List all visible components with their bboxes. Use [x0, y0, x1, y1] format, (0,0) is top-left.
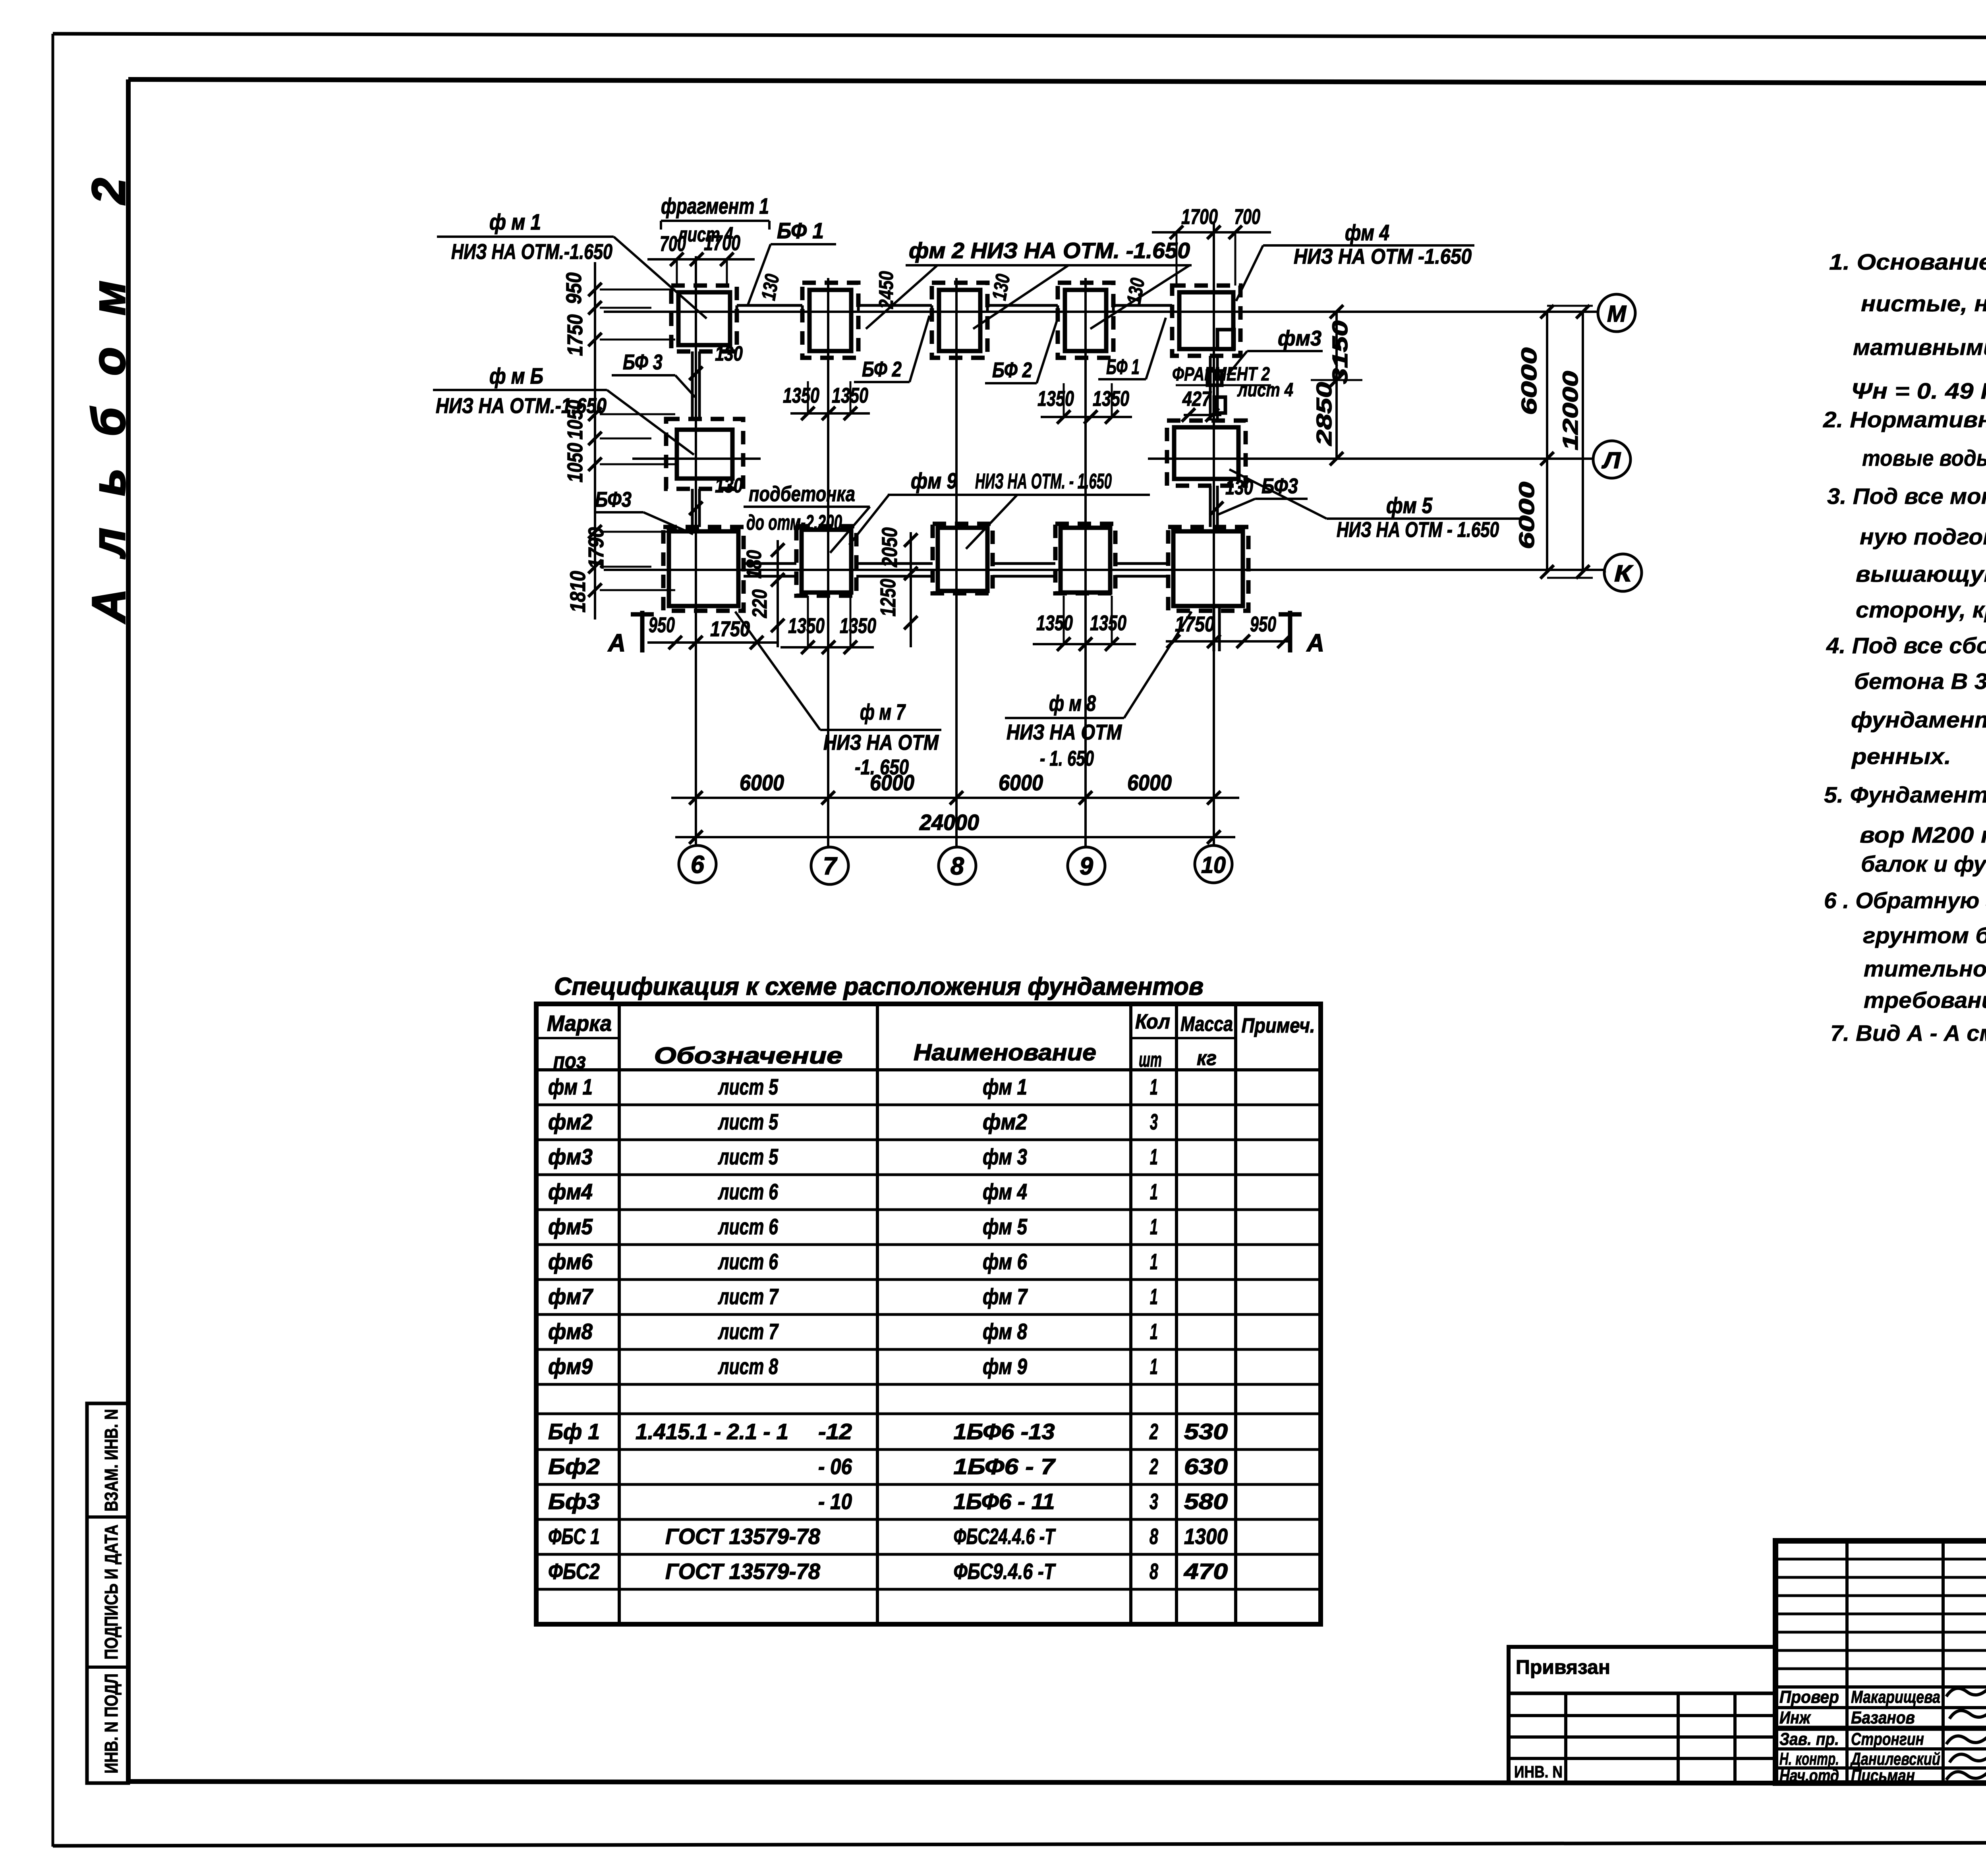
- margin label inv: [101, 1673, 122, 1774]
- svg-text:1250: 1250: [876, 579, 900, 617]
- svg-text:БФ3: БФ3: [595, 488, 632, 511]
- svg-text:Спецификация к схеме располо: Спецификация к схеме расположения фундам…: [554, 973, 1204, 1000]
- svg-text:лист 7: лист 7: [718, 1319, 779, 1344]
- album label: [83, 146, 135, 624]
- svg-text:1700: 1700: [1181, 205, 1218, 229]
- svg-text:Провер: Провер: [1779, 1687, 1839, 1707]
- svg-text:фм9: фм9: [548, 1354, 593, 1379]
- svg-text:130: 130: [988, 272, 1014, 302]
- svg-text:Нач.отд: Нач.отд: [1779, 1766, 1839, 1785]
- svg-text:до отм-2.200: до отм-2.200: [746, 511, 842, 535]
- column axis 7: [827, 278, 829, 847]
- svg-text:требованиями СНиП 3. 02. 01: требованиями СНиП 3. 02. 01 - 87.: [1864, 988, 1986, 1013]
- svg-text:А: А: [607, 629, 626, 657]
- foundation FM9 axis7 row K: [796, 526, 856, 596]
- title staff row Провер: [1779, 1687, 1940, 1707]
- svg-text:950: 950: [649, 613, 675, 637]
- label fragment2: [1172, 364, 1293, 401]
- label FM7: [735, 612, 941, 779]
- svg-text:-1. 650: -1. 650: [855, 755, 909, 779]
- svg-text:Наименование: Наименование: [914, 1040, 1096, 1065]
- note line 10: [1856, 597, 1986, 623]
- label BF3 first: [612, 350, 695, 397]
- foundation FM9 axis8 row K: [933, 524, 993, 593]
- dimension 180 220 vertical: [743, 540, 784, 647]
- svg-text:1: 1: [1150, 1179, 1158, 1204]
- note line 20: [1864, 956, 1986, 982]
- svg-text:9: 9: [1080, 853, 1093, 880]
- svg-text:Привязан: Привязан: [1516, 1656, 1610, 1678]
- title staff row Нач.отд: [1779, 1766, 1915, 1785]
- spec row Бф2: [548, 1454, 1228, 1479]
- row axis K: [604, 569, 1604, 571]
- label FM9 niz na otm: [849, 468, 1150, 549]
- svg-text:1: 1: [1150, 1074, 1158, 1099]
- svg-text:470: 470: [1184, 1559, 1228, 1584]
- svg-text:А: А: [1306, 629, 1324, 657]
- gap label 130 near FM5: [1210, 476, 1253, 515]
- svg-text:фундамента на 100мм в каж: фундамента на 100мм в каждую сторону, кр…: [1851, 707, 1986, 733]
- axis circle 8: [939, 847, 976, 884]
- svg-text:БФ 1: БФ 1: [1106, 355, 1140, 379]
- svg-text:Стронгин: Стронгин: [1851, 1729, 1924, 1749]
- svg-text:Ψн = 0. 49 РАД; ρ = 1.8 т: Ψн = 0. 49 РАД; ρ = 1.8 т/м³ ; кт = 1: [1851, 378, 1986, 404]
- svg-text:вор М200 толщиной 20 мм.: вор М200 толщиной 20 мм. Зазоры между то…: [1860, 822, 1986, 848]
- svg-text:180: 180: [743, 550, 766, 579]
- svg-text:фм 4: фм 4: [983, 1179, 1027, 1204]
- svg-text:7. Вид А - А смотри ли: 7. Вид А - А смотри лист 4.: [1830, 1021, 1986, 1046]
- dimension chain 6000x4: [671, 770, 1239, 805]
- svg-text:6000: 6000: [1517, 347, 1541, 415]
- svg-text:БФ3: БФ3: [1262, 474, 1298, 498]
- spec table grid: [536, 1004, 1321, 1624]
- dimension 1750 950 axis10 lower: [1166, 612, 1291, 648]
- svg-text:лист 6: лист 6: [718, 1179, 779, 1204]
- dimension 12000 vertical right: [1547, 305, 1593, 579]
- column axis 8: [955, 278, 958, 847]
- label podbetonka: [744, 482, 870, 553]
- dimension 6000 6000 vertical right: [1515, 305, 1554, 579]
- dimension label 1750 left: [563, 315, 587, 356]
- dimension 2050 1250 vertical: [876, 527, 918, 647]
- foundation FM4 axis10 row M: [1172, 286, 1240, 356]
- svg-text:БФ 2: БФ 2: [992, 358, 1032, 382]
- dimension 1350 1350 axis9 lower: [1033, 596, 1136, 651]
- label FM5 niz na otm: [1229, 469, 1521, 542]
- spec row ФБС2: [548, 1559, 1228, 1584]
- svg-text:фм 8: фм 8: [983, 1319, 1028, 1344]
- svg-text:12000: 12000: [1559, 371, 1582, 450]
- row axis M: [604, 311, 1598, 313]
- svg-text:фм5: фм5: [548, 1214, 593, 1239]
- svg-text:ПОДПИСЬ И ДАТА: ПОДПИСЬ И ДАТА: [101, 1525, 122, 1660]
- row axis L: [632, 457, 1593, 460]
- beam BF row K: [744, 564, 1168, 576]
- svg-text:Инж: Инж: [1779, 1708, 1811, 1727]
- spec table header text: [547, 1010, 1315, 1073]
- section mark A right: [1279, 611, 1324, 657]
- dimension 950 1750 axis6 lower: [647, 613, 779, 649]
- svg-text:ф м 7: ф м 7: [860, 699, 906, 724]
- svg-text:ВЗАМ. ИНВ. N: ВЗАМ. ИНВ. N: [101, 1409, 122, 1511]
- svg-text:БФ 1: БФ 1: [777, 218, 824, 243]
- svg-text:1350: 1350: [832, 384, 868, 407]
- svg-text:ГОСТ 13579-78: ГОСТ 13579-78: [665, 1524, 821, 1549]
- label BF1 top left: [748, 218, 836, 306]
- svg-text:фм 9: фм 9: [911, 468, 957, 493]
- svg-text:М: М: [1607, 301, 1627, 327]
- dimension chain 24000: [675, 810, 1235, 844]
- svg-text:3. Под все монолитные ф: 3. Под все монолитные фундаменты выполни…: [1827, 484, 1986, 509]
- svg-text:Бф3: Бф3: [548, 1489, 600, 1514]
- spec row фм 1: [548, 1074, 1158, 1099]
- svg-text:1350: 1350: [783, 384, 819, 407]
- svg-text:- 06: - 06: [818, 1454, 852, 1479]
- note line 6: [1862, 446, 1986, 471]
- svg-text:530: 530: [1184, 1419, 1228, 1444]
- foundation FM9 axis9 row K: [1055, 524, 1115, 593]
- axis circle L: [1593, 441, 1631, 478]
- margin label vzam: [101, 1409, 122, 1511]
- svg-text:ф м Б: ф м Б: [489, 363, 543, 388]
- label FM4 niz na otm: [1236, 220, 1474, 301]
- svg-text:1: 1: [1150, 1284, 1158, 1309]
- svg-text:фм8: фм8: [548, 1319, 593, 1344]
- svg-text:2050: 2050: [878, 527, 902, 567]
- label BF2 second: [985, 316, 1059, 383]
- svg-text:сторону, кроме оговоренных: сторону, кроме оговоренных.: [1856, 597, 1986, 623]
- svg-text:8: 8: [950, 853, 964, 880]
- svg-text:- 10: - 10: [818, 1489, 852, 1514]
- dimension 1350 1350 axis9 upper: [1037, 383, 1132, 424]
- svg-text:700: 700: [1234, 205, 1260, 229]
- svg-text:лист 5: лист 5: [718, 1109, 779, 1134]
- svg-text:1: 1: [1150, 1319, 1158, 1344]
- column axis 6: [695, 256, 697, 845]
- column axis 10: [1213, 222, 1215, 845]
- svg-text:фм 5: фм 5: [1386, 493, 1433, 518]
- privyazan table: [1509, 1647, 1775, 1783]
- spec row Бф 1: [548, 1419, 1228, 1444]
- svg-text:6000: 6000: [1515, 482, 1539, 549]
- svg-text:2850: 2850: [1312, 382, 1336, 446]
- svg-text:1790: 1790: [584, 527, 608, 569]
- label fragment1: [661, 193, 769, 246]
- svg-text:фм 6: фм 6: [983, 1249, 1028, 1274]
- svg-text:НИЗ НА ОТМ -1.650: НИЗ НА ОТМ -1.650: [1294, 245, 1472, 268]
- svg-text:Зав. пр.: Зав. пр.: [1779, 1729, 1839, 1749]
- beam BF row M: [737, 305, 1172, 312]
- svg-text:фм2: фм2: [548, 1109, 593, 1134]
- svg-text:1БФ6 -13: 1БФ6 -13: [954, 1419, 1055, 1444]
- foundation FM2 axis7 row M: [802, 283, 858, 358]
- dimension label 950 left: [562, 272, 586, 304]
- svg-text:2: 2: [1149, 1454, 1158, 1479]
- svg-text:130: 130: [1122, 276, 1149, 306]
- svg-text:Л: Л: [1602, 448, 1621, 473]
- note line 18: [1824, 888, 1986, 913]
- label FM8: [1005, 612, 1192, 770]
- svg-text:1350: 1350: [1090, 611, 1126, 635]
- note line 12: [1854, 669, 1986, 694]
- dimension label 1050 left lower: [563, 443, 587, 483]
- note line 1: [1829, 249, 1986, 275]
- svg-text:фм 1: фм 1: [983, 1074, 1027, 1099]
- svg-text:фм 4: фм 4: [1345, 220, 1389, 245]
- svg-text:лист 5: лист 5: [718, 1074, 779, 1099]
- svg-text:1350: 1350: [788, 614, 825, 638]
- svg-text:фм 2 НИЗ НА ОТМ. -1.650: фм 2 НИЗ НА ОТМ. -1.650: [909, 238, 1190, 263]
- note line 16: [1860, 822, 1986, 848]
- note line 13: [1851, 707, 1986, 733]
- gap label 130 top axis7: [757, 272, 784, 302]
- svg-text:Письман: Письман: [1851, 1766, 1915, 1785]
- svg-text:ренных.: ренных.: [1851, 744, 1951, 769]
- svg-text:Примеч.: Примеч.: [1242, 1014, 1315, 1037]
- svg-text:ФБС 1: ФБС 1: [548, 1524, 600, 1549]
- note line 4: [1851, 378, 1986, 404]
- axis circle 7: [811, 847, 848, 884]
- svg-text:Марка: Марка: [547, 1011, 612, 1036]
- label BF3 right: [1218, 474, 1308, 515]
- svg-text:1. Основанием фундаментов пр: 1. Основанием фундаментов приняты сухие …: [1829, 249, 1986, 275]
- title staff row Зав. пр.: [1779, 1729, 1924, 1749]
- privyazan inv label: [1514, 1762, 1563, 1781]
- svg-text:ИНВ. N: ИНВ. N: [1514, 1762, 1563, 1781]
- label BF3 second: [595, 488, 693, 534]
- svg-text:6000: 6000: [1127, 770, 1172, 795]
- svg-text:фм 9: фм 9: [983, 1354, 1027, 1379]
- svg-text:лист 5: лист 5: [718, 1144, 779, 1169]
- svg-text:Базанов: Базанов: [1851, 1708, 1915, 1727]
- svg-text:фм7: фм7: [548, 1284, 594, 1309]
- label FM1: [437, 209, 707, 318]
- dimension label 1810 left: [566, 571, 590, 613]
- foundation FM3 fragment2 detail: [1207, 371, 1225, 413]
- svg-text:НИЗ НА ОТМ - 1.650: НИЗ НА ОТМ - 1.650: [1337, 518, 1499, 542]
- svg-text:8: 8: [1149, 1559, 1159, 1584]
- label BF1 right: [1098, 318, 1166, 379]
- svg-text:1БФ6 - 7: 1БФ6 - 7: [954, 1454, 1056, 1479]
- section mark A left: [607, 611, 654, 657]
- margin stamp table: [87, 1403, 128, 1783]
- spec row фм9: [548, 1354, 1158, 1379]
- svg-text:лист 4: лист 4: [1237, 380, 1293, 401]
- note line 9: [1856, 562, 1986, 587]
- privyazan label: [1516, 1656, 1610, 1678]
- svg-text:950: 950: [562, 272, 586, 304]
- svg-text:24000: 24000: [919, 810, 979, 835]
- dimension line left column: [588, 262, 675, 620]
- svg-text:1: 1: [1150, 1144, 1158, 1169]
- svg-text:нистые, непросадочные грун: нистые, непросадочные грунты со следующи…: [1861, 291, 1986, 317]
- svg-text:кг: кг: [1197, 1047, 1217, 1070]
- gap label 2450 top axis7: [875, 271, 897, 309]
- svg-text:1750: 1750: [563, 315, 587, 356]
- svg-text:5. Фундаментные балки укл: 5. Фундаментные балки укладывать на цеме…: [1824, 782, 1986, 808]
- svg-text:1: 1: [1150, 1249, 1158, 1274]
- svg-text:Альбом 2: Альбом 2: [83, 146, 135, 624]
- svg-text:ГОСТ 13579-78: ГОСТ 13579-78: [665, 1559, 821, 1584]
- svg-text:мативными характеристиками: мативными характеристиками : Сн = 2 кПА;…: [1853, 335, 1986, 360]
- title staff row Н. контр.: [1779, 1749, 1940, 1769]
- svg-text:фм 1: фм 1: [548, 1074, 593, 1099]
- note line 22: [1830, 1021, 1986, 1046]
- svg-text:лист 6: лист 6: [718, 1249, 779, 1274]
- dimension 700 1700 over FM1: [647, 231, 755, 286]
- foundation FM5 axis10 row L: [1167, 421, 1246, 486]
- svg-text:фм6: фм6: [548, 1249, 593, 1274]
- svg-text:220: 220: [748, 589, 771, 618]
- axis circle M: [1598, 294, 1635, 332]
- svg-text:Обозначение: Обозначение: [654, 1043, 843, 1069]
- svg-text:- 1. 650: - 1. 650: [1040, 747, 1094, 770]
- spec row фм4: [548, 1179, 1158, 1204]
- svg-text:лист 4: лист 4: [677, 223, 733, 246]
- svg-text:балок и фундаментом задел: балок и фундаментом заделать бетоном В15…: [1861, 851, 1986, 877]
- spec table heading: [554, 973, 1204, 1000]
- svg-text:2: 2: [1149, 1419, 1158, 1444]
- svg-text:фм3: фм3: [1278, 326, 1321, 350]
- svg-text:лист 8: лист 8: [718, 1354, 779, 1379]
- note line 3: [1853, 335, 1986, 360]
- svg-text:фм4: фм4: [548, 1179, 593, 1204]
- svg-text:1050: 1050: [563, 443, 587, 483]
- svg-text:1350: 1350: [1036, 611, 1073, 635]
- svg-text:427: 427: [1182, 388, 1212, 411]
- beam BF3 axis10 vertical: [1210, 356, 1219, 651]
- svg-text:1: 1: [1150, 1214, 1158, 1239]
- svg-text:7: 7: [823, 853, 837, 880]
- dimension 1350 1350 axis7 lower: [780, 596, 876, 654]
- svg-text:ф м 1: ф м 1: [489, 209, 541, 234]
- svg-text:К: К: [1614, 561, 1633, 587]
- spec row фм8: [548, 1319, 1158, 1344]
- foundation FM8 axis10 row K: [1168, 527, 1248, 611]
- foundation FM2 axis9 row M: [1058, 283, 1113, 358]
- spec row ФБС 1: [548, 1524, 1228, 1549]
- foundation FM1 axis6 row M: [671, 286, 737, 351]
- svg-text:ную подготовку из бетона: ную подготовку из бетона В 3. 5 высотой …: [1860, 524, 1986, 550]
- dimension label 1050 left upper: [563, 400, 587, 440]
- svg-text:10: 10: [1201, 852, 1226, 878]
- svg-text:НИЗ НА ОТМ.-1.650: НИЗ НА ОТМ.-1.650: [451, 240, 612, 264]
- svg-text:3150: 3150: [1328, 320, 1352, 384]
- svg-text:130: 130: [757, 272, 784, 302]
- gap label 130 below FM6: [689, 474, 743, 515]
- spec row фм7: [548, 1284, 1158, 1309]
- spec row фм2: [548, 1109, 1158, 1134]
- foundation FM7 axis6 row K: [663, 527, 744, 611]
- svg-text:1БФ6 - 11: 1БФ6 - 11: [954, 1489, 1055, 1514]
- svg-text:фрагмент 1: фрагмент 1: [661, 193, 769, 218]
- svg-text:БФ 2: БФ 2: [862, 357, 902, 381]
- note line 8: [1860, 524, 1986, 550]
- note line 2: [1861, 291, 1986, 317]
- svg-text:1300: 1300: [1184, 1524, 1228, 1549]
- svg-text:лист 7: лист 7: [718, 1284, 779, 1309]
- svg-text:фм 7: фм 7: [983, 1284, 1028, 1309]
- svg-text:6000: 6000: [999, 770, 1043, 795]
- note line 15: [1824, 782, 1986, 808]
- svg-text:НИЗ НА ОТМ: НИЗ НА ОТМ: [823, 731, 939, 755]
- svg-text:подбетонка: подбетонка: [749, 482, 855, 506]
- foundation FM6 axis6 row L: [666, 419, 743, 489]
- axis circle 9: [1068, 847, 1105, 884]
- svg-text:ф м 8: ф м 8: [1049, 691, 1096, 716]
- gap label 130 below FM1: [689, 342, 743, 380]
- svg-text:1750: 1750: [1175, 612, 1215, 636]
- svg-text:1: 1: [1150, 1354, 1158, 1379]
- svg-text:Макарищева: Макарищева: [1851, 1687, 1940, 1707]
- svg-text:вышающую габарит фундамент: вышающую габарит фундамента на 100 мм в …: [1856, 562, 1986, 587]
- note line 11: [1826, 633, 1986, 658]
- dimension 3150 2850 vertical right: [1311, 305, 1362, 465]
- svg-text:950: 950: [1250, 612, 1276, 636]
- svg-text:3: 3: [1150, 1109, 1158, 1134]
- svg-text:БФ 3: БФ 3: [623, 350, 663, 374]
- svg-text:2. Нормативная глубина пр: 2. Нормативная глубина промерзания грунт…: [1823, 407, 1986, 432]
- svg-text:Масса: Масса: [1180, 1013, 1233, 1036]
- svg-text:грунтом без включения ст: грунтом без включения строительного мусо…: [1863, 923, 1986, 948]
- svg-text:шт: шт: [1139, 1048, 1162, 1071]
- note line 7: [1827, 484, 1986, 509]
- svg-text:-12: -12: [818, 1419, 852, 1444]
- svg-text:товые воды отсутствуют.: товые воды отсутствуют.: [1862, 446, 1986, 471]
- svg-text:8: 8: [1149, 1524, 1159, 1549]
- dimension 1700 700 over FM4: [1152, 205, 1271, 286]
- svg-text:Кол: Кол: [1135, 1010, 1170, 1033]
- label BF2 first: [854, 316, 929, 382]
- svg-text:580: 580: [1184, 1489, 1228, 1514]
- gap label 130 top axis10: [1122, 276, 1149, 306]
- label FM6: [433, 363, 694, 455]
- dimension 427 axis10: [1182, 388, 1221, 422]
- svg-text:1810: 1810: [566, 571, 590, 613]
- note line 17: [1861, 851, 1986, 877]
- axis circle K: [1604, 554, 1642, 591]
- svg-text:ИНВ. N ПОДЛ: ИНВ. N ПОДЛ: [101, 1673, 122, 1774]
- svg-text:бетона В 3. 5 высотой 100: бетона В 3. 5 высотой 100мм, превышающую…: [1854, 669, 1986, 694]
- foundation FM2 axis8 row M: [932, 283, 987, 358]
- svg-text:6 . Обратную засыпку пазух: 6 . Обратную засыпку пазух фундаментов п…: [1824, 888, 1986, 913]
- svg-text:фм3: фм3: [548, 1144, 593, 1169]
- spec row фм5: [548, 1214, 1158, 1239]
- label FM3: [1227, 326, 1323, 375]
- svg-text:630: 630: [1184, 1454, 1228, 1479]
- dimension label 1790 left: [584, 527, 608, 569]
- svg-text:тительного грунта с уплот: тительного грунта с уплотнением в соотве…: [1864, 956, 1986, 982]
- svg-text:фм 5: фм 5: [983, 1214, 1028, 1239]
- note line 14: [1851, 744, 1951, 769]
- svg-text:Бф 1: Бф 1: [548, 1419, 600, 1444]
- beam BF3 axis6 vertical: [692, 351, 699, 527]
- note line 21: [1864, 988, 1986, 1013]
- axis circle 6: [679, 845, 716, 883]
- note line 5: [1823, 407, 1986, 432]
- svg-text:фм2: фм2: [983, 1109, 1027, 1134]
- svg-text:130: 130: [715, 474, 743, 497]
- dimension 1350 1350 axis7 upper: [783, 381, 870, 420]
- svg-text:1350: 1350: [840, 614, 876, 638]
- svg-text:6000: 6000: [740, 770, 784, 795]
- title block grid left: [1775, 1541, 1986, 1783]
- svg-text:НИЗ НА ОТМ.-1.650: НИЗ НА ОТМ.-1.650: [436, 394, 607, 418]
- svg-text:лист 6: лист 6: [718, 1214, 779, 1239]
- axis circle 10: [1195, 845, 1232, 883]
- svg-text:6: 6: [691, 851, 705, 878]
- signatures: [1946, 1684, 1986, 1780]
